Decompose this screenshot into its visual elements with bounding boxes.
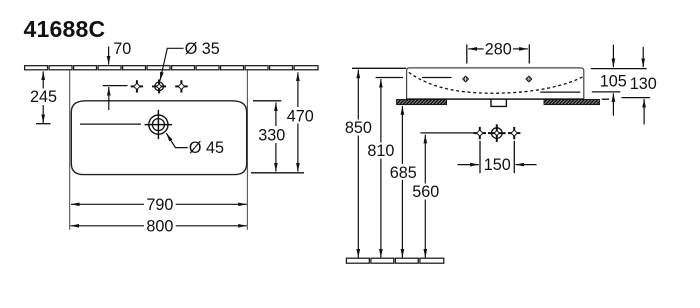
- faucet hole cross left: [131, 80, 143, 92]
- faucet level tick: [103, 85, 128, 87]
- svg-text:150: 150: [484, 156, 511, 174]
- svg-text:560: 560: [412, 183, 439, 201]
- dim 245 stem: [42, 71, 44, 88]
- faucet level arrow (70 second arrow): [108, 87, 110, 110]
- dim 280 extension lines: [466, 44, 468, 63]
- svg-text:280: 280: [485, 40, 512, 58]
- faucet hole center (Ø35): [152, 79, 166, 93]
- fixing hole diamond right: [525, 75, 532, 82]
- dim 330 stem: [275, 103, 277, 127]
- faucet hole cross right: [175, 80, 187, 92]
- leader Ø45: [166, 133, 187, 148]
- dim 105 lower arrow: [612, 93, 614, 116]
- dim 800 line: [70, 225, 144, 227]
- tick 850 level: [352, 67, 406, 69]
- svg-text:70: 70: [113, 40, 131, 58]
- dim 130 upper arrow: [642, 47, 644, 67]
- supply cross right: [508, 127, 520, 139]
- svg-text:800: 800: [146, 218, 173, 236]
- basin bowl outline (plan view): [71, 101, 246, 175]
- mounting hatch right: [544, 100, 600, 105]
- dim 330 top tick: [253, 100, 281, 102]
- floor line (masonry): [346, 258, 443, 263]
- basin right outer edge / extension line: [246, 70, 248, 229]
- front edge extension tick: [251, 172, 304, 174]
- wall line (masonry) left view: [25, 66, 318, 70]
- dim 150 extension lines: [479, 141, 481, 173]
- svg-text:470: 470: [287, 107, 314, 125]
- basin left outer edge / extension line: [69, 70, 71, 229]
- dim 850 stem: [357, 70, 359, 120]
- dim 105 bottom tick: [592, 91, 621, 93]
- supply level tick: [420, 132, 474, 134]
- drain outlet stub: [491, 99, 506, 106]
- svg-text:790: 790: [146, 196, 173, 214]
- dim 245 bottom tick: [36, 123, 51, 125]
- svg-text:105: 105: [600, 73, 627, 91]
- dim 70 stem+arrow: [108, 47, 110, 65]
- dim 810 stem: [380, 79, 382, 143]
- tick 105 level inner: [540, 91, 580, 93]
- dim 790 line: [71, 203, 144, 205]
- leader Ø35: [160, 48, 184, 80]
- svg-text:330: 330: [258, 127, 285, 145]
- basin bottom line: [406, 98, 584, 100]
- drain center line: [80, 123, 141, 125]
- svg-text:Ø 35: Ø 35: [185, 40, 220, 58]
- basin body (front elevation): [407, 68, 584, 99]
- mounting hatch left: [397, 100, 447, 105]
- centre dash-dot: [602, 98, 609, 100]
- svg-text:Ø 45: Ø 45: [189, 139, 224, 157]
- svg-text:130: 130: [630, 75, 657, 93]
- svg-text:41688C: 41688C: [24, 16, 106, 42]
- supply cross left: [474, 127, 486, 139]
- drain hole Ø45: [149, 115, 168, 134]
- dim 470 stem: [297, 72, 299, 107]
- dim 150 arrows: [458, 164, 479, 166]
- svg-text:685: 685: [390, 164, 417, 182]
- svg-text:245: 245: [30, 88, 57, 106]
- dim 560 stem: [424, 135, 426, 184]
- dim 280 arrows: [468, 48, 483, 50]
- svg-text:810: 810: [367, 142, 394, 160]
- dim 130 lower arrow: [643, 99, 645, 125]
- dim 685 stem: [401, 106, 403, 164]
- dim 130 bottom tick: [621, 97, 650, 99]
- hidden bowl bottom (dashed): [409, 72, 583, 93]
- fixing hole diamond left: [462, 75, 469, 82]
- tick 810 level: [376, 77, 403, 79]
- dim 105 upper arrow: [612, 45, 614, 68]
- supply center (circled cross): [488, 124, 506, 142]
- dim 105/130 top tick: [591, 68, 647, 70]
- svg-text:850: 850: [345, 119, 372, 137]
